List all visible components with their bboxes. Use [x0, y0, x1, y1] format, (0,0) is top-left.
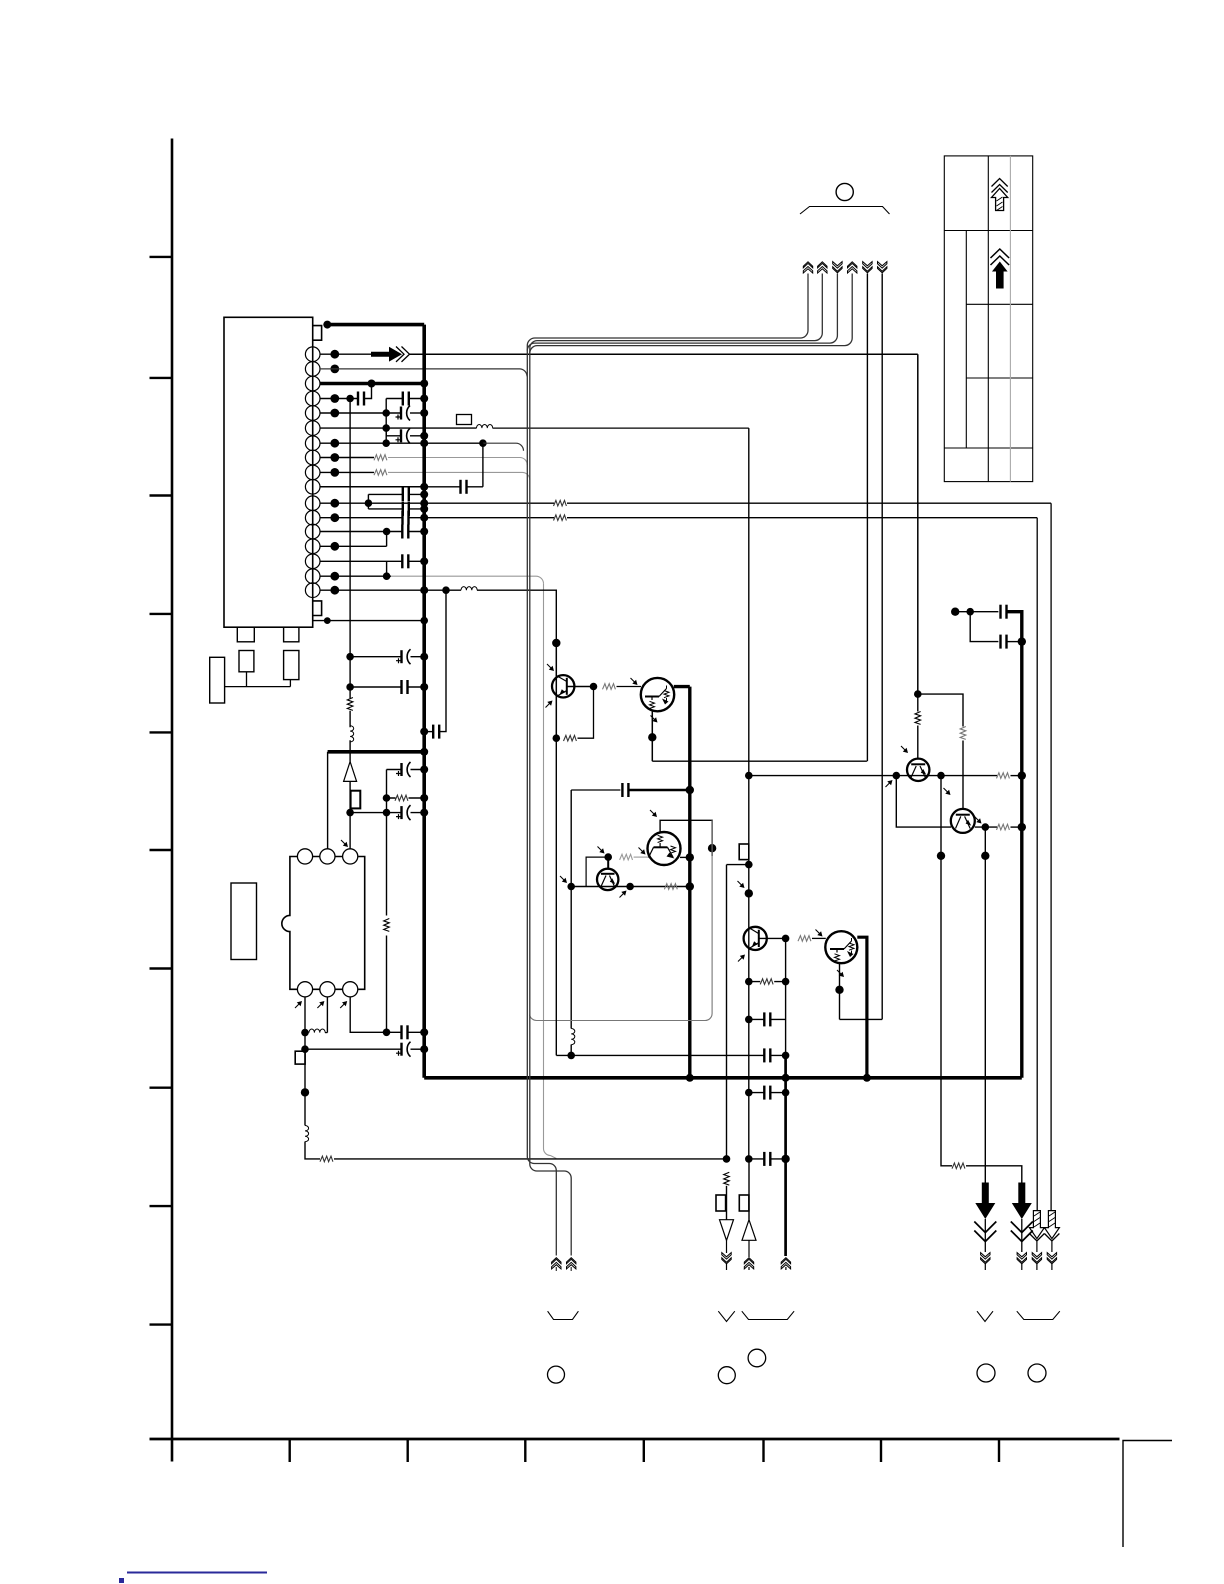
- wire pin3b down corner: [350, 997, 386, 1032]
- junction dot C9 left: [383, 528, 391, 536]
- resistor R20 vertical: [724, 1172, 730, 1185]
- brace group mid U: [742, 1311, 794, 1319]
- brace group left: [548, 1311, 579, 1319]
- resistor R7 vertical: [384, 919, 390, 932]
- transistor Q4 digital: [825, 931, 857, 963]
- border tick bottom 4: [643, 1439, 645, 1462]
- wire x985 down: [984, 827, 986, 1182]
- wire x726 down: [726, 1186, 728, 1220]
- probe arrow pin3t: [341, 840, 348, 847]
- wire row16 gray to cable: [391, 576, 544, 584]
- junction dot row752 bus: [420, 748, 428, 756]
- wire A5 vertical: [866, 274, 868, 762]
- wire pin1 row: [320, 353, 371, 355]
- wires C6: [368, 493, 424, 495]
- wire D1 down: [726, 1241, 728, 1254]
- wire x327 down to IC2: [327, 752, 329, 850]
- junction dot C19 right: [782, 1052, 790, 1060]
- component box FB2: [351, 791, 361, 809]
- border corner mark bottom right: [1123, 1441, 1172, 1548]
- arrow connector A4 up: [848, 262, 857, 273]
- wire pin17 row: [320, 589, 461, 591]
- border tick left 5: [150, 731, 173, 733]
- arrow connector A6 down: [878, 262, 887, 273]
- cable bundle line 1: [527, 346, 556, 1256]
- wire row694: [918, 694, 963, 726]
- resistor R1: [374, 455, 387, 461]
- border tick left 1: [150, 256, 173, 258]
- wire A2 curve: [530, 274, 823, 349]
- resistor R9: [564, 735, 577, 741]
- junction dot row10 bus: [420, 483, 428, 491]
- wire pin6 row: [320, 427, 477, 429]
- capacitor C8: [403, 511, 409, 525]
- inductor L1: [477, 425, 493, 429]
- legend table frame: [944, 156, 1032, 482]
- capacitor C14 electrolytic: [396, 762, 411, 777]
- wire R11 to Q6: [634, 856, 649, 858]
- border tick bottom 2: [407, 1439, 409, 1462]
- wire pin3 row thick: [320, 382, 424, 385]
- junction dot row886 mid: [626, 883, 634, 891]
- vertical link x368: [367, 494, 369, 509]
- junction dot row1049 left: [301, 1045, 309, 1053]
- junction dot C11 bus: [420, 728, 428, 736]
- thick wire box top y752: [328, 750, 425, 754]
- wire gray x543 down: [544, 584, 557, 1159]
- wire row761: [652, 760, 867, 762]
- wires C12 row: [350, 656, 424, 658]
- diode marker down D1: [720, 1220, 734, 1241]
- wire x571 vertical: [570, 790, 572, 1055]
- wire row886: [571, 886, 690, 888]
- junction dot C2 bus: [420, 395, 428, 403]
- border tick left 9: [150, 1205, 173, 1207]
- border tick bottom 7: [998, 1439, 1000, 1462]
- component box FB5: [716, 1195, 726, 1211]
- capacitor C19: [764, 1048, 770, 1062]
- footer link dot: [119, 1578, 124, 1583]
- connector CN1 top tab: [313, 326, 322, 341]
- junction dot Q1 base: [590, 683, 598, 691]
- wire x748 long vertical: [748, 428, 750, 1159]
- wires R6 row: [387, 797, 425, 799]
- arrow connector A1 up: [803, 262, 812, 273]
- junction dot row1159 x726: [723, 1155, 731, 1163]
- star dot x985: [981, 852, 989, 860]
- inductor L3: [350, 726, 354, 742]
- power arrow down PA1: [974, 1183, 996, 1253]
- link row3 to C1: [364, 384, 372, 399]
- junction dot row7 x386: [382, 439, 390, 447]
- probe arrow Q3 top: [738, 881, 745, 888]
- wire pin16 row: [320, 575, 391, 577]
- wire pin11 row: [320, 502, 554, 504]
- wire C9 to bus: [408, 531, 424, 533]
- wire x941 down: [941, 776, 952, 1166]
- capacitor C13: [402, 680, 408, 694]
- junction dot row7 bus: [420, 439, 428, 447]
- component box FB1: [457, 415, 472, 425]
- end chevron EC8: [552, 1258, 561, 1269]
- wire row790 cap net: [571, 789, 620, 791]
- wire x917 below dot: [917, 694, 919, 759]
- capacitor C7: [403, 502, 409, 516]
- junction dot C9 bus: [420, 528, 428, 536]
- wire row1159 long: [334, 1158, 727, 1160]
- component box FB3: [295, 1051, 305, 1064]
- wire A6 vertical: [881, 274, 883, 1020]
- capacitor C4 electrolytic: [396, 428, 411, 443]
- junction dot x571 row1055: [567, 1052, 575, 1060]
- end chevron EC1: [981, 1253, 990, 1264]
- resistor block RB1: [239, 651, 254, 672]
- wires C15 row: [350, 812, 424, 814]
- probe arrow Q3 bottom: [738, 955, 745, 962]
- marker triangle up: [344, 762, 357, 782]
- resistor R6: [395, 795, 408, 801]
- transistor Q8: [951, 809, 975, 833]
- junction dot C7 bus: [420, 505, 428, 513]
- star dot x748: [745, 889, 753, 897]
- junction dot C14 bus: [420, 766, 428, 774]
- wire Q4 emitter down: [839, 963, 841, 1019]
- junction dot x350 row656: [346, 653, 354, 661]
- junction dot top tab: [323, 321, 331, 329]
- IC2 pin1 top: [297, 849, 312, 864]
- junction dot Q6 bus2: [686, 853, 694, 861]
- junction dot row3 bus: [420, 380, 428, 388]
- wires C14 row: [387, 769, 425, 771]
- junction dot C18 bus2: [686, 786, 694, 794]
- wire R16 to bus3: [1011, 826, 1022, 828]
- connector CN1 pins 1-17: [305, 347, 320, 598]
- end chevron EC4: [1047, 1253, 1056, 1264]
- resistor R13 vertical: [960, 727, 966, 740]
- end stub EC8: [555, 1267, 557, 1271]
- end chevron EC7 thick wire: [781, 1258, 790, 1269]
- arrow connector A3 down: [833, 262, 842, 273]
- connector ring CN2: [836, 183, 853, 200]
- wire x749 down: [748, 1159, 750, 1220]
- junction dot rail x689: [686, 1074, 694, 1082]
- resistor R17: [952, 1163, 965, 1169]
- junction dot bus row620: [420, 617, 428, 625]
- probe arrow Q8 base: [944, 788, 951, 795]
- component box FB4: [739, 844, 749, 860]
- IC2 pin3 top: [343, 849, 358, 864]
- junction dot row7 x482: [479, 439, 487, 447]
- junction dot row1159 x748: [745, 1155, 753, 1163]
- border tick left 10: [150, 1323, 173, 1325]
- junction dot R19 right: [782, 978, 790, 986]
- border tick left 7: [150, 967, 173, 969]
- IC2 pin1 bottom: [297, 982, 312, 997]
- capacitor C9: [402, 525, 408, 539]
- junction dot row5: [382, 409, 390, 417]
- footer link line: [127, 1572, 267, 1574]
- wire row17 to corner: [477, 590, 556, 643]
- hatched arrow down HA1: [1029, 1211, 1044, 1252]
- junction dot row775 left: [745, 772, 753, 780]
- hatched arrow down HA2: [1044, 1211, 1059, 1252]
- wire R17 to corner: [966, 1166, 1022, 1183]
- end chevron EC5: [722, 1253, 731, 1264]
- wire feedback loop: [578, 687, 594, 739]
- wire pin1b down: [304, 997, 306, 1049]
- junction dot row1032 x386: [383, 1029, 391, 1037]
- wire pin4 row: [320, 398, 358, 400]
- probe arrow IC2 pin3b: [340, 1001, 347, 1008]
- wire Q6 base L: [660, 820, 712, 856]
- brace group mid V: [718, 1311, 735, 1321]
- arrow connector A2 up: [818, 262, 827, 273]
- wire x963 to Q8: [962, 741, 964, 810]
- wire Q6 to bus2: [680, 856, 690, 858]
- probe arrow at Q2 input: [631, 678, 638, 685]
- end chevron EC3: [1032, 1253, 1041, 1264]
- wires R19 row: [749, 981, 786, 983]
- border tick bottom 1: [289, 1439, 291, 1462]
- wire coil to pin2b: [325, 1032, 327, 1034]
- probe arrow row857: [598, 847, 605, 854]
- junction dot x748 row864: [745, 861, 753, 869]
- junction dot Q3 base corner: [782, 935, 790, 943]
- wire row12 vertical x1037: [1036, 518, 1038, 1211]
- junction dot C4 bus: [420, 432, 428, 440]
- wire crystal net: [225, 672, 291, 687]
- wire row1055: [556, 738, 785, 1055]
- probe arrow Q7 top: [901, 746, 908, 753]
- border tick bottom 6: [880, 1439, 882, 1462]
- wire CN1 bottom to bus: [313, 620, 424, 622]
- link C9 to row14: [386, 532, 388, 547]
- probe arrow row827: [975, 817, 982, 824]
- star dot Q2 emitter: [648, 733, 656, 741]
- wire row611: [955, 611, 998, 613]
- border bottom line: [150, 1438, 1120, 1441]
- resistor R8: [320, 1156, 333, 1162]
- vertical x386 mid: [386, 770, 388, 916]
- wire Q4 emitter corner: [840, 1018, 883, 1020]
- resistor R4: [554, 515, 567, 521]
- component box FB6: [739, 1195, 749, 1211]
- probe arrow Q2 emitter: [651, 716, 658, 723]
- junction dot R6 left: [383, 794, 391, 802]
- end stub EC5: [726, 1264, 728, 1270]
- junction dot row827 x985: [982, 823, 990, 831]
- wire pin2b down: [326, 997, 328, 1033]
- wire R10 to Q2: [617, 686, 642, 688]
- IC2 pin2 top: [320, 849, 335, 864]
- resistor R15: [997, 773, 1010, 779]
- probe arrow below Q1: [546, 701, 553, 708]
- wire C11 to bus: [424, 731, 433, 733]
- resistor R12: [664, 884, 677, 890]
- wire row11 vertical x1051: [1050, 503, 1052, 1211]
- signal arrow right: [371, 347, 410, 362]
- connector CN1 body: [224, 317, 313, 627]
- border tick left 6: [150, 849, 173, 851]
- wire x970 down: [970, 612, 998, 642]
- junction dot row775 x896: [893, 772, 901, 780]
- wire pin7 row: [320, 442, 483, 444]
- probe arrow row886 mid: [620, 891, 627, 898]
- wire row7 gray curve: [483, 443, 524, 451]
- brace group right U: [1017, 1311, 1060, 1319]
- capacitor C21: [1001, 635, 1007, 649]
- capacitor C15 electrolytic: [396, 805, 411, 820]
- wire x305 down: [304, 1049, 306, 1125]
- wire x785 vertical: [785, 938, 787, 1056]
- wire Q5 base: [607, 857, 609, 869]
- wire C3 to bus: [410, 412, 424, 414]
- wires C13 row: [350, 686, 424, 688]
- capacitor C17 electrolytic: [396, 1042, 411, 1057]
- resistor R18: [798, 936, 811, 942]
- junction dot x350 row812: [346, 809, 354, 817]
- pad P2: [284, 627, 299, 642]
- inductor L2: [461, 587, 477, 591]
- star dot Q4 emitter: [835, 986, 843, 994]
- wire pin13 row: [320, 531, 402, 533]
- wire R15 to bus3: [1011, 775, 1022, 777]
- connector circle CC4: [977, 1364, 995, 1382]
- star dot x712: [708, 844, 716, 852]
- wire row1 to right corner: [410, 353, 918, 355]
- wire row857 corner: [586, 857, 608, 886]
- wire row827 right: [975, 826, 997, 828]
- arrow connector A5 down: [863, 262, 872, 273]
- junction dot row3: [368, 380, 376, 388]
- border tick left 4: [150, 613, 173, 615]
- probe arrow at Q6 input: [639, 848, 646, 855]
- wire C10 to bus: [408, 560, 424, 562]
- transistor Q3: [744, 927, 767, 950]
- wire x556 through Q1: [555, 643, 557, 738]
- probe dots on pin rows: [330, 350, 339, 595]
- transistor Q2 digital: [641, 678, 674, 711]
- junction dot row11 x368: [365, 499, 373, 507]
- link C5 to row7: [482, 443, 484, 487]
- resistor R19: [760, 979, 773, 985]
- capacitor C20: [1001, 605, 1007, 619]
- probe arrow Q6 base corner: [650, 810, 657, 817]
- end chevron EC6: [744, 1258, 753, 1269]
- wires C5: [424, 486, 483, 488]
- junction dot C13 bus: [420, 683, 428, 691]
- wires C24 row: [749, 1158, 786, 1160]
- junction dot C15 left: [383, 809, 391, 817]
- border tick bottom 3: [524, 1439, 526, 1462]
- end stub EC7: [785, 1267, 787, 1270]
- wire C21 to bus3: [1007, 641, 1022, 643]
- cable bundle line 2: [530, 348, 571, 1255]
- resistor R14 vertical: [915, 712, 921, 725]
- wire Q4 collector thick: [857, 937, 867, 1078]
- wire row6 to right corner: [493, 427, 749, 429]
- wire row864 link: [727, 865, 749, 1159]
- wire row12 to right corner: [567, 517, 1037, 519]
- connector CN1 bottom tab: [313, 601, 322, 616]
- wire pin9 row: [320, 471, 374, 473]
- end chevron EC9: [567, 1258, 576, 1269]
- junction dot C23 left: [745, 1089, 753, 1097]
- wires C16 row: [387, 1031, 425, 1033]
- wire R18 to Q4: [812, 937, 826, 939]
- capacitor C23: [764, 1086, 770, 1100]
- junction dot rail x785: [782, 1074, 790, 1082]
- wire row775: [749, 775, 997, 777]
- wire x305 corner to row1159: [305, 1142, 320, 1159]
- wire pin5 row: [320, 412, 401, 414]
- probe arrow above Q1: [547, 664, 554, 671]
- junction dot C23 right: [782, 1089, 790, 1097]
- pad P1: [237, 627, 254, 642]
- capacitor C16: [402, 1025, 408, 1039]
- link row15 to row16: [386, 561, 388, 576]
- wire bus2 vertical thick: [688, 687, 691, 1078]
- wire x785 vertical thick: [784, 1056, 787, 1256]
- wire pin14 row: [320, 545, 387, 547]
- inductor L4: [309, 1029, 325, 1033]
- wires C2 row: [386, 398, 424, 400]
- transistor Q5: [597, 869, 618, 890]
- junction dot row12 bus: [420, 514, 428, 522]
- vertical link x386: [385, 399, 387, 444]
- probe arrow Q4 input: [816, 930, 823, 937]
- junction dot feedback: [553, 734, 561, 742]
- star dot x305: [301, 1088, 309, 1096]
- connector circle CC2: [718, 1367, 735, 1384]
- connector circle CC5: [1028, 1364, 1046, 1382]
- junction dot row6: [382, 424, 390, 432]
- star dot node A: [552, 639, 560, 647]
- capacitor C2: [403, 392, 409, 406]
- diode marker up D2: [742, 1220, 756, 1241]
- capacitor C1: [358, 392, 364, 406]
- border left line: [171, 139, 174, 1462]
- transistor Q7: [907, 759, 929, 781]
- junction dot row775 x941: [937, 772, 945, 780]
- resistor R5: [347, 698, 353, 711]
- wire row11 to right corner: [567, 502, 1051, 504]
- wire C17 to bus: [411, 1048, 425, 1050]
- wire pin2 row gray: [320, 369, 527, 377]
- wire Q2 emitter down: [651, 711, 653, 761]
- transistor Q6 digital: [648, 832, 681, 865]
- junction dot C6 bus: [420, 490, 428, 498]
- junction dot x970: [966, 608, 974, 616]
- wire row1 vertical x917: [917, 354, 919, 694]
- wire Q1 base to node: [567, 686, 594, 688]
- junction dot coil left: [301, 1029, 309, 1037]
- wire Q3 base: [759, 937, 786, 939]
- junction dot C10 bus: [420, 557, 428, 565]
- junction dot row11 bus: [420, 499, 428, 507]
- wire C8 to bus: [409, 517, 555, 519]
- capacitor C10: [402, 554, 408, 568]
- wire pin10 row: [320, 486, 424, 488]
- junction dot row775 bus3: [1018, 771, 1026, 779]
- crystal X1: [210, 657, 225, 703]
- border tick left 3: [150, 494, 173, 496]
- end stubs right group: [985, 1264, 1052, 1270]
- junction dot rail x866: [863, 1074, 871, 1082]
- junction dot row827 bus3: [1018, 823, 1026, 831]
- wire row8 gray: [388, 458, 527, 466]
- wire D2 down: [748, 1240, 750, 1257]
